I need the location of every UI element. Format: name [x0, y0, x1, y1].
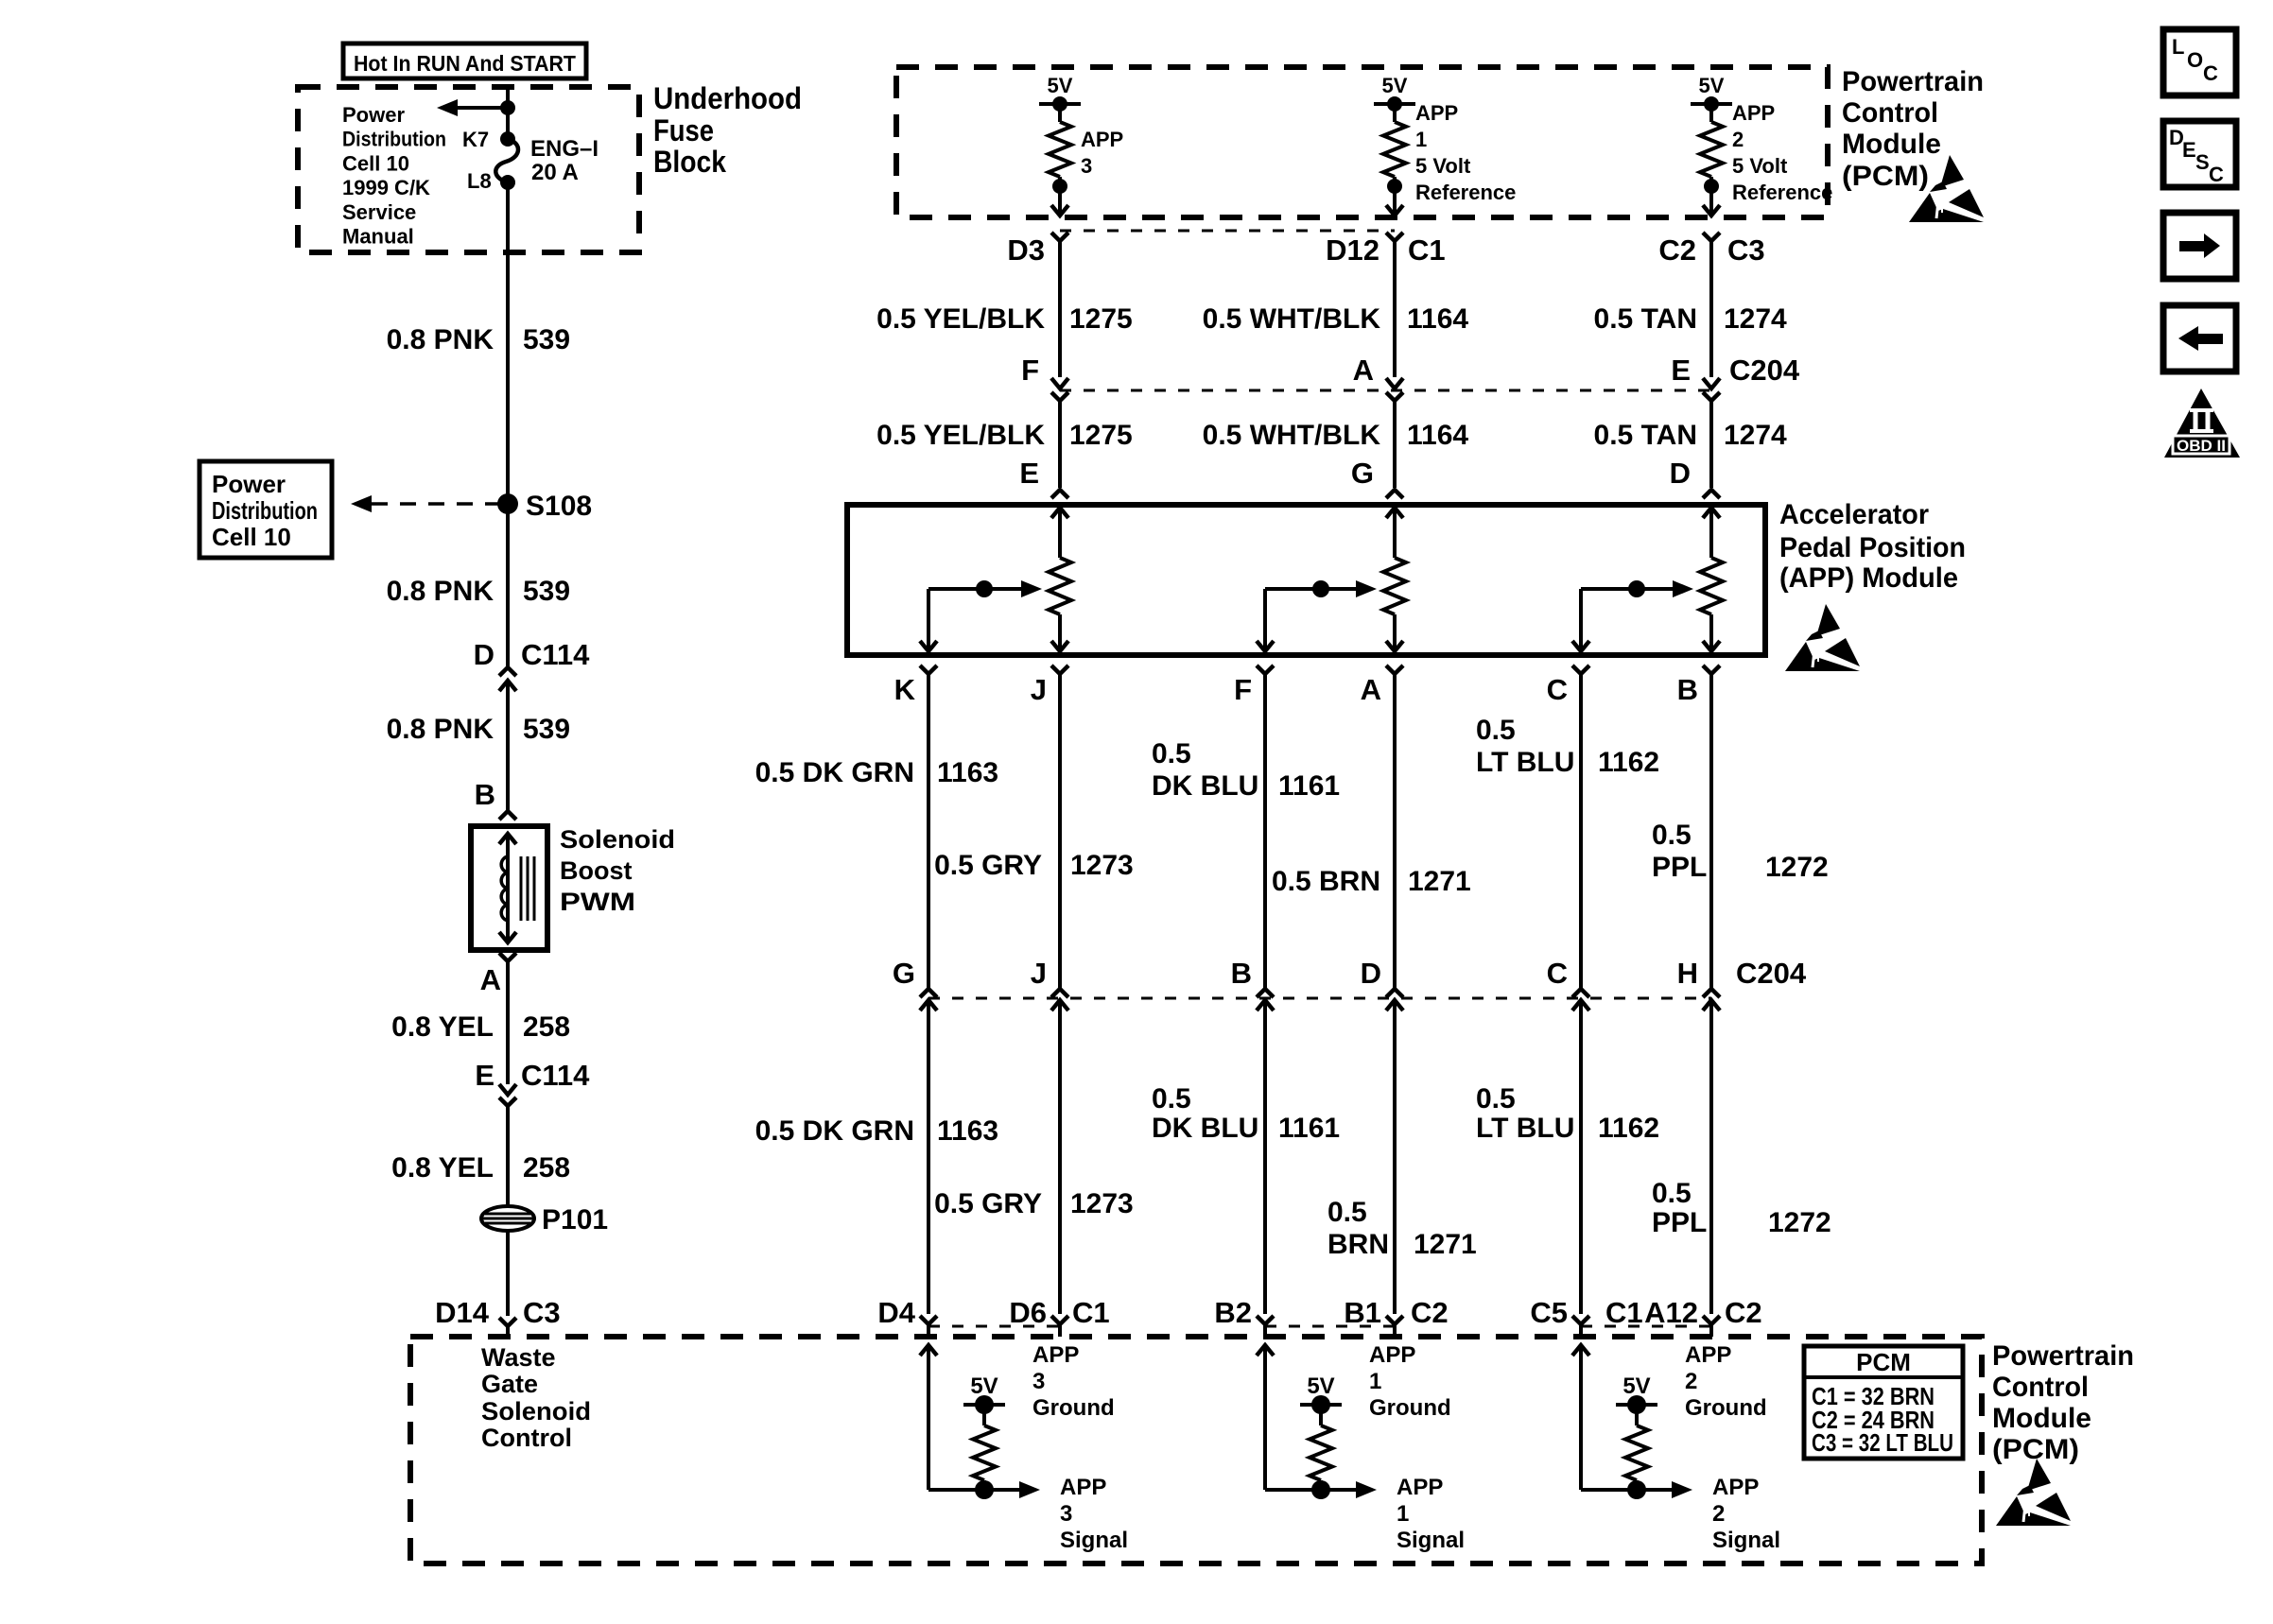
svg-text:Manual: Manual: [342, 225, 414, 249]
svg-text:0.8 PNK: 0.8 PNK: [387, 714, 495, 745]
svg-text:3: 3: [1060, 1501, 1072, 1527]
svg-text:539: 539: [523, 576, 570, 607]
svg-text:2: 2: [1685, 1369, 1697, 1394]
svg-text:D14: D14: [435, 1296, 490, 1329]
svg-text:D6: D6: [1009, 1296, 1047, 1329]
svg-text:LT BLU: LT BLU: [1476, 747, 1574, 778]
svg-text:0.5 YEL/BLK: 0.5 YEL/BLK: [876, 303, 1045, 335]
svg-text:539: 539: [523, 714, 570, 745]
svg-text:L: L: [2172, 35, 2184, 59]
svg-text:0.5: 0.5: [1652, 1178, 1692, 1209]
svg-text:APP: APP: [1712, 1475, 1759, 1500]
svg-text:Module: Module: [1992, 1403, 2091, 1434]
svg-text:Solenoid: Solenoid: [481, 1397, 591, 1425]
svg-text:D: D: [1670, 457, 1691, 490]
svg-text:BRN: BRN: [1327, 1229, 1389, 1260]
svg-text:1164: 1164: [1407, 420, 1468, 451]
svg-text:20 A: 20 A: [531, 160, 579, 185]
svg-text:1273: 1273: [1070, 850, 1134, 881]
svg-text:1: 1: [1369, 1369, 1381, 1394]
svg-text:1275: 1275: [1069, 420, 1133, 451]
svg-text:Gate: Gate: [481, 1370, 538, 1398]
svg-text:0.8 PNK: 0.8 PNK: [387, 324, 495, 355]
svg-text:C114: C114: [521, 638, 590, 671]
svg-text:DK BLU: DK BLU: [1152, 770, 1258, 802]
svg-text:APP: APP: [1081, 128, 1123, 151]
svg-text:1274: 1274: [1724, 303, 1787, 335]
svg-text:Signal: Signal: [1060, 1528, 1128, 1553]
svg-text:Power: Power: [212, 470, 286, 498]
svg-text:0.5 GRY: 0.5 GRY: [934, 850, 1042, 881]
svg-text:B: B: [1231, 957, 1252, 990]
svg-text:Powertrain: Powertrain: [1992, 1340, 2134, 1372]
svg-text:Service: Service: [342, 200, 416, 224]
svg-text:A: A: [480, 963, 501, 996]
svg-text:PPL: PPL: [1652, 852, 1707, 883]
svg-text:E: E: [1019, 457, 1039, 490]
svg-text:G: G: [893, 957, 915, 990]
svg-text:Underhood: Underhood: [653, 81, 802, 115]
svg-text:C3 = 32 LT BLU: C3 = 32 LT BLU: [1812, 1428, 1953, 1457]
svg-text:APP: APP: [1397, 1475, 1443, 1500]
svg-text:5 Volt: 5 Volt: [1732, 154, 1788, 178]
svg-text:1272: 1272: [1765, 852, 1829, 883]
svg-text:C: C: [1547, 673, 1568, 706]
svg-text:D3: D3: [1007, 233, 1045, 267]
svg-text:0.5: 0.5: [1152, 738, 1191, 769]
svg-text:5V: 5V: [1307, 1373, 1334, 1399]
svg-text:DK BLU: DK BLU: [1152, 1113, 1258, 1144]
svg-text:Ground: Ground: [1032, 1395, 1115, 1421]
svg-text:1161: 1161: [1278, 770, 1340, 802]
svg-text:0.5: 0.5: [1327, 1197, 1367, 1228]
svg-text:Fuse: Fuse: [653, 113, 714, 147]
svg-text:1273: 1273: [1070, 1188, 1134, 1219]
svg-text:B: B: [1677, 673, 1698, 706]
svg-text:Reference: Reference: [1415, 181, 1516, 204]
svg-text:5V: 5V: [1622, 1373, 1650, 1399]
svg-text:5V: 5V: [1699, 74, 1725, 97]
svg-text:C114: C114: [521, 1059, 590, 1092]
svg-text:C1: C1: [1408, 233, 1446, 267]
svg-text:5V: 5V: [970, 1373, 998, 1399]
svg-text:Cell 10: Cell 10: [342, 151, 409, 175]
svg-text:Signal: Signal: [1397, 1528, 1465, 1553]
svg-text:1: 1: [1415, 128, 1427, 151]
svg-text:1164: 1164: [1407, 303, 1468, 335]
svg-text:C1: C1: [1605, 1296, 1643, 1329]
svg-text:0.5: 0.5: [1476, 1083, 1516, 1114]
svg-text:F: F: [1021, 354, 1039, 387]
svg-text:G: G: [1351, 457, 1374, 490]
svg-text:S: S: [2195, 150, 2210, 174]
svg-text:PWM: PWM: [560, 888, 635, 916]
svg-text:0.5 WHT/BLK: 0.5 WHT/BLK: [1203, 303, 1381, 335]
svg-text:PCM: PCM: [1856, 1348, 1911, 1376]
svg-text:C: C: [2209, 163, 2224, 186]
svg-text:258: 258: [523, 1152, 570, 1183]
svg-text:1163: 1163: [937, 1115, 998, 1147]
svg-text:D: D: [1361, 957, 1381, 990]
svg-text:C5: C5: [1530, 1296, 1568, 1329]
svg-text:2: 2: [1712, 1501, 1725, 1527]
svg-text:E: E: [475, 1059, 495, 1092]
svg-text:1162: 1162: [1598, 747, 1659, 778]
svg-text:Pedal Position: Pedal Position: [1779, 532, 1966, 563]
svg-text:1271: 1271: [1414, 1229, 1477, 1260]
svg-text:C3: C3: [523, 1296, 561, 1329]
svg-text:Control: Control: [1992, 1372, 2089, 1403]
svg-text:Cell 10: Cell 10: [212, 523, 291, 551]
svg-text:0.5: 0.5: [1152, 1083, 1191, 1114]
svg-text:Accelerator: Accelerator: [1779, 499, 1929, 530]
svg-text:J: J: [1031, 957, 1047, 990]
svg-text:K7: K7: [462, 128, 489, 151]
svg-text:H: H: [1677, 957, 1698, 990]
svg-text:(APP) Module: (APP) Module: [1779, 562, 1958, 594]
svg-text:K: K: [894, 673, 916, 706]
svg-text:5V: 5V: [1382, 74, 1408, 97]
svg-text:Block: Block: [653, 145, 726, 179]
svg-text:Waste: Waste: [481, 1343, 556, 1372]
svg-text:B2: B2: [1214, 1296, 1252, 1329]
svg-text:C2: C2: [1411, 1296, 1449, 1329]
svg-text:C: C: [1547, 957, 1568, 990]
svg-text:Control: Control: [481, 1424, 572, 1452]
svg-text:1162: 1162: [1598, 1113, 1659, 1144]
svg-text:PPL: PPL: [1652, 1207, 1707, 1238]
svg-text:0.5 GRY: 0.5 GRY: [934, 1188, 1042, 1219]
svg-text:E: E: [1671, 354, 1691, 387]
svg-text:Module: Module: [1842, 129, 1941, 160]
svg-text:Ground: Ground: [1369, 1395, 1451, 1421]
svg-text:Ground: Ground: [1685, 1395, 1767, 1421]
svg-text:Boost: Boost: [560, 856, 633, 885]
svg-text:0.8 PNK: 0.8 PNK: [387, 576, 495, 607]
svg-text:1161: 1161: [1278, 1113, 1340, 1144]
svg-text:0.5: 0.5: [1652, 820, 1692, 851]
svg-text:539: 539: [523, 324, 570, 355]
svg-text:0.5 BRN: 0.5 BRN: [1272, 866, 1380, 897]
svg-text:C204: C204: [1729, 354, 1800, 387]
svg-text:ENG–I: ENG–I: [530, 136, 599, 162]
svg-text:Power: Power: [342, 103, 405, 127]
svg-text:2: 2: [1732, 128, 1744, 151]
svg-text:0.5 WHT/BLK: 0.5 WHT/BLK: [1203, 420, 1381, 451]
svg-text:Signal: Signal: [1712, 1528, 1780, 1553]
svg-text:J: J: [1031, 673, 1047, 706]
svg-text:APP: APP: [1415, 101, 1458, 125]
svg-text:Hot In RUN And START: Hot In RUN And START: [354, 51, 576, 76]
svg-text:A: A: [1361, 673, 1381, 706]
svg-text:1: 1: [1397, 1501, 1409, 1527]
svg-text:Distribution: Distribution: [212, 496, 318, 525]
svg-text:C1: C1: [1072, 1296, 1110, 1329]
svg-text:C: C: [2203, 61, 2218, 85]
svg-text:APP: APP: [1685, 1342, 1731, 1368]
svg-text:0.5 YEL/BLK: 0.5 YEL/BLK: [876, 420, 1045, 451]
svg-text:0.8 YEL: 0.8 YEL: [391, 1152, 494, 1183]
svg-text:APP: APP: [1732, 101, 1775, 125]
svg-text:258: 258: [523, 1011, 570, 1043]
svg-text:1274: 1274: [1724, 420, 1787, 451]
svg-text:APP: APP: [1060, 1475, 1106, 1500]
svg-text:L8: L8: [467, 169, 492, 193]
svg-text:D12: D12: [1326, 233, 1379, 267]
svg-text:O: O: [2187, 48, 2203, 72]
svg-text:D: D: [474, 638, 495, 671]
svg-text:Reference: Reference: [1732, 181, 1832, 204]
svg-text:C204: C204: [1736, 957, 1807, 990]
svg-text:0.5 DK GRN: 0.5 DK GRN: [755, 1115, 914, 1147]
svg-text:(PCM): (PCM): [1992, 1434, 2079, 1465]
svg-text:P101: P101: [542, 1204, 608, 1235]
svg-text:0.5: 0.5: [1476, 715, 1516, 746]
svg-text:APP: APP: [1032, 1342, 1079, 1368]
svg-text:OBD II: OBD II: [2177, 437, 2226, 455]
svg-text:C2: C2: [1658, 233, 1696, 267]
svg-text:(PCM): (PCM): [1842, 161, 1929, 192]
svg-text:B: B: [475, 778, 495, 811]
svg-text:3: 3: [1081, 154, 1092, 178]
svg-text:E: E: [2182, 138, 2196, 162]
svg-text:5 Volt: 5 Volt: [1415, 154, 1471, 178]
svg-text:1999 C/K: 1999 C/K: [342, 176, 430, 199]
svg-text:F: F: [1234, 673, 1252, 706]
svg-text:A: A: [1353, 354, 1374, 387]
svg-text:1275: 1275: [1069, 303, 1133, 335]
svg-text:1163: 1163: [937, 757, 998, 788]
svg-text:0.5 DK GRN: 0.5 DK GRN: [755, 757, 914, 788]
svg-text:C2: C2: [1725, 1296, 1762, 1329]
svg-text:A12: A12: [1644, 1296, 1698, 1329]
svg-text:LT BLU: LT BLU: [1476, 1113, 1574, 1144]
svg-text:0.8 YEL: 0.8 YEL: [391, 1011, 494, 1043]
svg-text:Control: Control: [1842, 97, 1938, 129]
svg-text:APP: APP: [1369, 1342, 1415, 1368]
svg-text:0.5 TAN: 0.5 TAN: [1594, 420, 1697, 451]
svg-text:Powertrain: Powertrain: [1842, 66, 1984, 97]
svg-text:C3: C3: [1727, 233, 1765, 267]
svg-text:B1: B1: [1344, 1296, 1381, 1329]
svg-text:1271: 1271: [1408, 866, 1471, 897]
svg-text:D4: D4: [877, 1296, 915, 1329]
svg-text:1272: 1272: [1768, 1207, 1831, 1238]
svg-text:0.5 TAN: 0.5 TAN: [1594, 303, 1697, 335]
svg-text:S108: S108: [526, 491, 592, 522]
svg-text:3: 3: [1032, 1369, 1045, 1394]
svg-text:Distribution: Distribution: [342, 128, 446, 151]
svg-text:5V: 5V: [1048, 74, 1073, 97]
svg-text:Solenoid: Solenoid: [560, 825, 675, 854]
